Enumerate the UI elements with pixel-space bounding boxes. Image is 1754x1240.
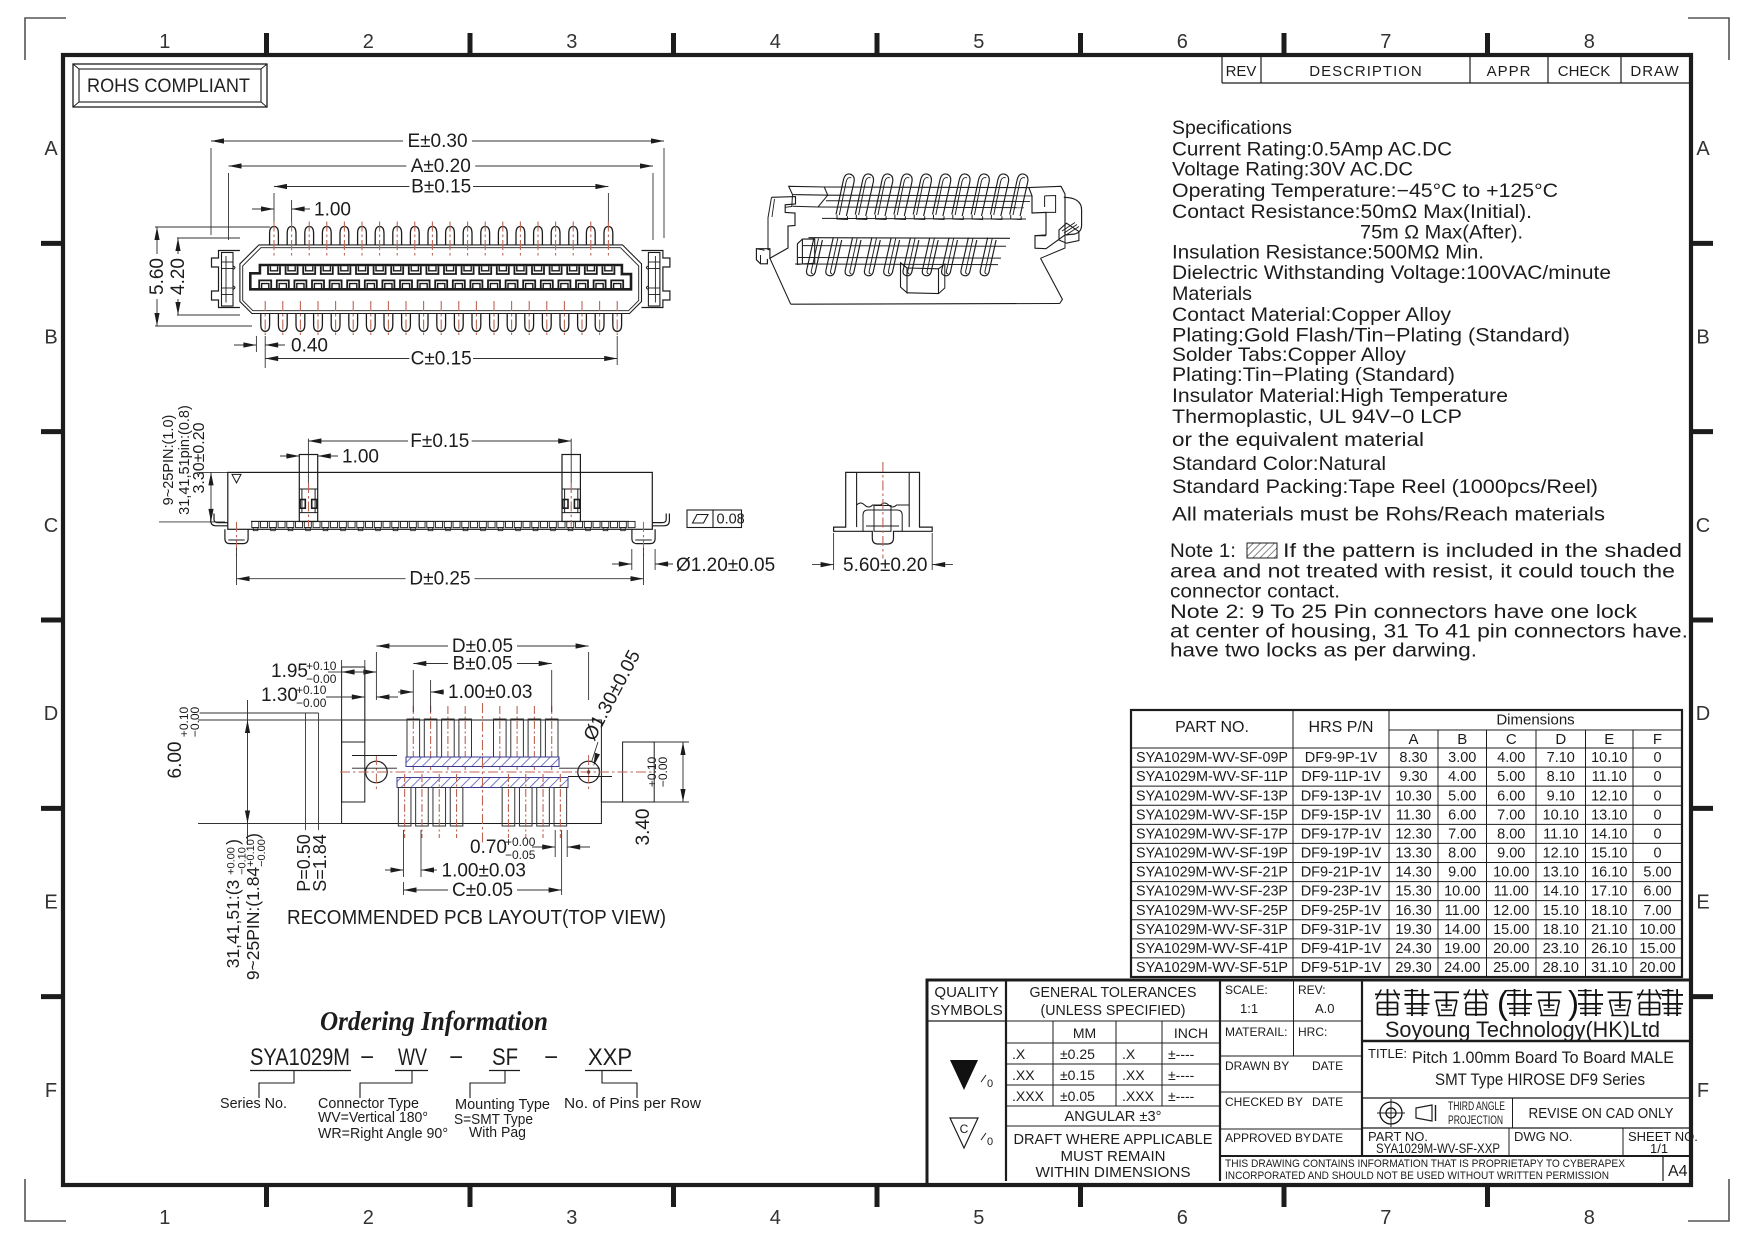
right end fitting [642,251,670,308]
hole left [366,761,388,783]
section inner contact [857,503,910,507]
svg-text:SF: SF [492,1044,518,1071]
svg-text:A±0.20: A±0.20 [411,156,471,177]
svg-text:75m Ω Max(After).: 75m Ω Max(After). [1360,222,1523,244]
svg-text:DF9-23P-1V: DF9-23P-1V [1301,884,1382,900]
svg-text:0.70: 0.70 [470,837,507,858]
svg-text:APPR: APPR [1487,63,1532,80]
svg-text:Dielectric Withstanding Volt: Dielectric Withstanding Voltage:100VAC/m… [1172,262,1611,284]
svg-text:DF9-13P-1V: DF9-13P-1V [1301,788,1382,804]
svg-text:4.20: 4.20 [168,258,189,295]
svg-text:Pitch 1.00mm Board To Boar: Pitch 1.00mm Board To Board MALE [1412,1049,1674,1067]
svg-text:PROJECTION: PROJECTION [1448,1115,1503,1127]
svg-text:31,41,51:(3: 31,41,51:(3 [223,880,243,969]
pcb vertical centerline [482,703,484,845]
svg-text:GENERAL TOLERANCES: GENERAL TOLERANCES [1030,984,1197,1001]
svg-text:APPROVED BY: APPROVED BY [1225,1131,1311,1145]
svg-text:23.10: 23.10 [1543,941,1579,957]
svg-text:Voltage Rating:30V AC.DC: Voltage Rating:30V AC.DC [1172,159,1413,181]
svg-text:10.00: 10.00 [1493,865,1529,881]
svg-text:±----: ±---- [1168,1046,1195,1062]
svg-text:1/1: 1/1 [1650,1141,1668,1156]
svg-text:WITHIN DIMENSIONS: WITHIN DIMENSIONS [1036,1164,1191,1181]
svg-text:13.10: 13.10 [1543,865,1579,881]
company name cell [1362,1040,1691,1043]
svg-text:Ø1.20±0.05: Ø1.20±0.05 [676,555,775,576]
ROHS COMPLIANT label box [73,64,267,107]
svg-text:DATE: DATE [1312,1131,1343,1145]
svg-text:DF9-15P-1V: DF9-15P-1V [1301,807,1382,823]
svg-text:5: 5 [973,1207,984,1229]
svg-text:have two locks as per dar: have two locks as per darwing. [1170,640,1477,662]
svg-text:4: 4 [770,31,781,53]
iso front shelf [809,237,1011,240]
svg-text:SYA1029M-WV-SF-51P: SYA1029M-WV-SF-51P [1136,960,1288,976]
svg-text:1.00±0.03: 1.00±0.03 [442,861,526,882]
general tolerances cell [1219,980,1221,1181]
lock tower right [562,455,580,522]
svg-text:B: B [44,327,57,349]
svg-text:E: E [1696,892,1709,914]
iso rear rail [824,186,1029,189]
dim 5.60 vertical [155,226,270,228]
iso body bottom and faces [791,303,1060,306]
svg-text:4.00: 4.00 [1497,750,1525,766]
svg-text:): ) [1568,984,1579,1021]
svg-text:10.00: 10.00 [1444,884,1480,900]
svg-text:A.0: A.0 [1315,1001,1335,1016]
title cell [1362,1097,1691,1099]
svg-text:10.30: 10.30 [1395,788,1431,804]
svg-text:A: A [1408,731,1418,748]
svg-text:C: C [44,515,58,537]
svg-text:+0.10: +0.10 [306,659,337,673]
svg-text:11.10: 11.10 [1543,826,1578,842]
svg-text:Series No.: Series No. [220,1095,287,1112]
dim 3.40 vertical [654,742,689,802]
revision table strip [1221,57,1223,83]
dim C±0.15 [616,336,618,365]
svg-text:10.10: 10.10 [1543,807,1579,823]
svg-text:4: 4 [770,1207,781,1229]
svg-text:29.30: 29.30 [1395,960,1431,976]
svg-text:SYMBOLS: SYMBOLS [930,1002,1003,1019]
flatness symbol 0.08 [687,510,742,528]
svg-text:15.00: 15.00 [1639,941,1675,957]
svg-text:S=1.84: S=1.84 [310,834,330,892]
svg-text:F±0.15: F±0.15 [410,431,469,452]
svg-text:13.30: 13.30 [1395,846,1431,862]
contact row top [268,266,280,274]
lock tower left [299,455,317,522]
svg-text:Soyoung Technology(HK)Ltd: Soyoung Technology(HK)Ltd [1385,1017,1660,1042]
svg-text:F: F [1653,731,1662,748]
lower hatched bar [397,778,568,788]
svg-text:Plating:Tin−Plating (Standard: Plating:Tin−Plating (Standard) [1172,364,1455,386]
svg-text:DRAWN BY: DRAWN BY [1225,1059,1289,1073]
svg-text:Contact Material:Copper Allo: Contact Material:Copper Alloy [1172,304,1451,326]
dim 1.00 top [291,200,293,228]
svg-text:3.40: 3.40 [633,809,654,846]
svg-text:14.10: 14.10 [1591,826,1627,842]
svg-text:Operating Temperature:−45°C: Operating Temperature:−45°C to +125°C [1172,180,1558,202]
upper hatched bar [406,757,559,767]
svg-text:C: C [1696,515,1710,537]
svg-text:.XXX: .XXX [1012,1088,1045,1104]
svg-text:Materials: Materials [1172,283,1252,305]
svg-text:INCORPORATED AND SHOULD NOT: INCORPORATED AND SHOULD NOT BE USED WITH… [1225,1170,1609,1182]
svg-text:.XX: .XX [1122,1067,1145,1083]
svg-text:1.00: 1.00 [314,200,351,221]
svg-text:): ) [223,839,243,845]
dim 5.60±0.20 [833,533,835,570]
dim F±0.15 [307,439,309,483]
svg-text:HRC:: HRC: [1298,1025,1327,1039]
svg-text:connector contact.: connector contact. [1170,581,1340,603]
svg-text:1:1: 1:1 [1240,1001,1258,1016]
svg-text:7.10: 7.10 [1547,750,1575,766]
svg-text:SYA1029M: SYA1029M [250,1044,350,1071]
scale/rev/material column [1361,980,1363,1156]
quality symbols cell [1005,980,1007,1181]
svg-text:DF9-25P-1V: DF9-25P-1V [1301,903,1382,919]
contact row bottom [259,280,271,288]
bottom pin row [261,314,270,332]
svg-text:Current Rating:0.5Amp AC.DC: Current Rating:0.5Amp AC.DC [1172,139,1452,161]
svg-text:REV:: REV: [1298,983,1326,997]
svg-text:6: 6 [1177,1207,1188,1229]
svg-text:XXP: XXP [588,1044,632,1071]
svg-text:B: B [1696,327,1709,349]
pcb horizontal centerline [340,771,656,773]
svg-text:−0.00: −0.00 [656,756,670,787]
svg-text:11.00: 11.00 [1494,884,1529,900]
svg-text:20.00: 20.00 [1639,960,1675,976]
side body outline [228,472,653,529]
svg-text:±----: ±---- [1168,1067,1195,1083]
svg-text:Thermoplastic, UL 94V−0 LCP: Thermoplastic, UL 94V−0 LCP [1172,406,1462,428]
svg-text:11.30: 11.30 [1396,807,1431,823]
svg-text:MUST REMAIN: MUST REMAIN [1061,1148,1166,1165]
svg-text:SYA1029M-WV-SF-31P: SYA1029M-WV-SF-31P [1136,922,1288,938]
svg-text:7: 7 [1380,31,1391,53]
sheet frame corner marks [25,18,66,60]
contact block outline [250,265,631,289]
svg-text:21.10: 21.10 [1591,922,1627,938]
upper pad row [407,719,420,757]
svg-text:Insulator Material:High Temp: Insulator Material:High Temperature [1172,385,1508,407]
svg-text:0: 0 [987,1136,993,1148]
svg-text:SCALE:: SCALE: [1225,983,1268,997]
svg-text:Specifications: Specifications [1172,117,1292,139]
left fitting outline [342,667,365,802]
svg-text:−0.00: −0.00 [256,839,268,867]
svg-text:area and not treated with: area and not treated with resist, it cou… [1170,561,1675,583]
svg-text:PART NO.: PART NO. [1175,719,1249,736]
svg-text:0: 0 [1653,826,1661,842]
svg-text:E±0.30: E±0.30 [407,131,467,152]
svg-text:19.30: 19.30 [1395,922,1431,938]
svg-text:12.00: 12.00 [1493,903,1529,919]
svg-text:8: 8 [1584,1207,1595,1229]
svg-text:19.00: 19.00 [1444,941,1480,957]
svg-text:16.30: 16.30 [1395,903,1431,919]
svg-text:−0.00: −0.00 [188,706,202,737]
iso center peg [901,263,908,293]
svg-text:6.00: 6.00 [1497,788,1525,804]
svg-text:DATE: DATE [1312,1059,1343,1073]
company chinese name (drawn strokes) [1387,989,1389,1016]
svg-text:.XXX: .XXX [1122,1088,1155,1104]
svg-text:3.00: 3.00 [1448,750,1476,766]
svg-text:7.00: 7.00 [1497,807,1525,823]
svg-text:SYA1029M-WV-SF-23P: SYA1029M-WV-SF-23P [1136,884,1288,900]
dim C±0.05 [403,882,405,895]
svg-text:9.00: 9.00 [1497,846,1525,862]
svg-text:C: C [1506,731,1517,748]
svg-text:REV: REV [1226,63,1257,80]
hole right [578,761,600,783]
svg-text:0: 0 [1653,807,1661,823]
dim B±0.15 [273,193,275,228]
svg-text:5: 5 [973,31,984,53]
svg-text:C±0.05: C±0.05 [452,880,513,901]
solder tab strip [251,520,629,522]
svg-text:): ) [243,833,263,839]
svg-text:1.95: 1.95 [271,661,308,682]
pcb body outline [342,720,602,824]
svg-text:15.10: 15.10 [1543,903,1579,919]
svg-text:WV=Vertical 180°: WV=Vertical 180° [318,1109,428,1126]
svg-text:Solder Tabs:Copper Alloy: Solder Tabs:Copper Alloy [1172,344,1406,366]
svg-text:9.10: 9.10 [1547,788,1575,804]
svg-text:SYA1029M-WV-SF-25P: SYA1029M-WV-SF-25P [1136,903,1288,919]
svg-text:3.30±0.20: 3.30±0.20 [191,422,208,493]
svg-text:5.00: 5.00 [1643,865,1671,881]
svg-text:D±0.25: D±0.25 [409,569,470,590]
svg-text:0: 0 [1653,769,1661,785]
svg-text:2: 2 [363,31,374,53]
svg-text:10.00: 10.00 [1639,922,1675,938]
svg-text:Dimensions: Dimensions [1496,712,1574,729]
svg-text:12.10: 12.10 [1543,846,1579,862]
svg-text:1.30: 1.30 [261,685,298,706]
svg-text:8.00: 8.00 [1448,846,1476,862]
proprietary note row [1220,1155,1691,1157]
svg-text:24.00: 24.00 [1444,960,1480,976]
svg-text:8.10: 8.10 [1547,769,1575,785]
svg-text:5.60±0.20: 5.60±0.20 [843,555,927,576]
svg-text:TITLE:: TITLE: [1368,1046,1407,1061]
svg-text:0.40: 0.40 [291,336,328,357]
svg-text:SYA1029M-WV-SF-15P: SYA1029M-WV-SF-15P [1136,807,1288,823]
svg-text:SYA1029M-WV-SF-21P: SYA1029M-WV-SF-21P [1136,865,1288,881]
svg-text:DESCRIPTION: DESCRIPTION [1309,63,1423,80]
top pin row [270,227,279,245]
svg-text:(: ( [1497,984,1508,1021]
svg-text:Ordering Information: Ordering Information [320,1006,548,1036]
svg-text:5.60: 5.60 [147,258,168,295]
ordering leader lines [259,1071,294,1099]
svg-text:A: A [1696,138,1710,160]
svg-text:C: C [960,1122,969,1136]
svg-text:Note 1:: Note 1: [1170,540,1236,562]
svg-text:HRS P/N: HRS P/N [1309,719,1374,736]
svg-text:Insulation Resistance:500MΩ M: Insulation Resistance:500MΩ Min. [1172,242,1484,264]
svg-text:SYA1029M-WV-SF-11P: SYA1029M-WV-SF-11P [1136,769,1288,785]
svg-text:A: A [44,138,58,160]
dim 1.00 side [280,455,299,457]
right peg [632,529,655,543]
svg-text:DRAFT WHERE APPLICABLE: DRAFT WHERE APPLICABLE [1014,1131,1213,1148]
svg-text:DF9-9P-1V: DF9-9P-1V [1305,750,1378,766]
svg-text:13.10: 13.10 [1591,807,1627,823]
svg-text:18.10: 18.10 [1543,922,1579,938]
svg-text:SYA1029M-WV-SF-13P: SYA1029M-WV-SF-13P [1136,788,1288,804]
dim Ø1.20±0.05 [631,549,633,570]
iso front pin row [806,238,822,276]
svg-text:12.30: 12.30 [1395,826,1431,842]
svg-text:18.10: 18.10 [1591,903,1627,919]
svg-text:WR=Right Angle 90°: WR=Right Angle 90° [318,1125,448,1142]
dim A±0.20 [228,173,230,240]
svg-text:20.00: 20.00 [1493,941,1529,957]
svg-text:10.10: 10.10 [1591,750,1627,766]
ruler ticks and numbers [264,33,269,57]
dim 1.00±0.03 upper [430,680,432,712]
svg-text:±0.05: ±0.05 [1060,1088,1095,1104]
svg-text:8: 8 [1584,31,1595,53]
svg-text:SYA1029M-WV-SF-19P: SYA1029M-WV-SF-19P [1136,846,1288,862]
svg-text:D: D [44,703,58,725]
svg-text:DATE: DATE [1312,1095,1343,1109]
svg-text:0.08: 0.08 [717,512,745,528]
svg-text:±----: ±---- [1168,1088,1195,1104]
svg-text:WV: WV [398,1044,427,1071]
svg-text:C±0.15: C±0.15 [411,349,472,370]
isometric view: rear rail left plate [789,186,828,195]
svg-text:0: 0 [1653,788,1661,804]
svg-text:±0.25: ±0.25 [1060,1046,1095,1062]
svg-text:14.30: 14.30 [1395,865,1431,881]
svg-text:DF9-21P-1V: DF9-21P-1V [1301,865,1382,881]
svg-text:ANGULAR ±3°: ANGULAR ±3° [1065,1108,1162,1125]
svg-text:−: − [449,1044,463,1071]
svg-text:ROHS COMPLIANT: ROHS COMPLIANT [87,75,250,97]
svg-text:E: E [1604,731,1614,748]
dimensions table [1131,710,1682,977]
svg-text:0: 0 [1653,750,1661,766]
dim B±0.05 pcb [412,670,414,712]
svg-text:+0.10: +0.10 [296,683,327,697]
svg-text:THIS DRAWING CONTAINS INFOR: THIS DRAWING CONTAINS INFORMATION THAT I… [1225,1158,1626,1170]
svg-text:14.10: 14.10 [1543,884,1579,900]
svg-text:MATERAIL:: MATERAIL: [1225,1025,1287,1039]
svg-text:DF9-17P-1V: DF9-17P-1V [1301,826,1382,842]
svg-text:9.00: 9.00 [1448,865,1476,881]
svg-text:11.10: 11.10 [1592,769,1627,785]
title block outline [927,980,1691,1185]
left end fitting [212,251,240,308]
svg-text:9~25PIN:(1.0): 9~25PIN:(1.0) [161,415,177,506]
svg-text:±0.15: ±0.15 [1060,1067,1095,1083]
svg-text:MM: MM [1073,1025,1096,1041]
svg-text:B: B [1457,731,1467,748]
svg-text:A4: A4 [1668,1163,1688,1180]
svg-text:26.10: 26.10 [1591,941,1627,957]
svg-text:2: 2 [363,1207,374,1229]
svg-text:D: D [1555,731,1566,748]
dim 1.00±0.03 lower [403,830,405,877]
iso front left block [797,239,814,265]
svg-text:−0.00: −0.00 [296,696,327,710]
svg-text:11.00: 11.00 [1445,903,1480,919]
svg-text:−: − [544,1044,558,1071]
quality triangle symbol [950,1060,978,1090]
quality C triangle symbol [950,1118,978,1148]
svg-text:8.00: 8.00 [1497,826,1525,842]
svg-text:1.00: 1.00 [342,447,379,468]
svg-text:.X: .X [1122,1046,1136,1062]
third angle projection symbol [1380,1102,1402,1124]
svg-text:D: D [1696,703,1710,725]
svg-text:6.00: 6.00 [1643,884,1671,900]
svg-text:With Pag: With Pag [469,1124,526,1141]
lower pad row [398,788,411,827]
svg-text:3: 3 [566,31,577,53]
svg-text:DF9-11P-1V: DF9-11P-1V [1301,769,1381,785]
svg-text:or the equivalent material: or the equivalent material [1172,429,1424,451]
svg-text:DF9-31P-1V: DF9-31P-1V [1301,922,1382,938]
svg-text:All materials must be Rohs: All materials must be Rohs/Reach materia… [1172,504,1605,526]
part no / dwg no / sheet row [1362,1127,1691,1129]
svg-text:7.00: 7.00 [1448,826,1476,842]
svg-text:5.00: 5.00 [1448,788,1476,804]
svg-text:DF9-19P-1V: DF9-19P-1V [1301,846,1382,862]
dim D±0.05 pcb [375,652,377,700]
svg-text:28.10: 28.10 [1543,960,1579,976]
dim 4.20 vertical [177,237,240,239]
svg-text:15.30: 15.30 [1395,884,1431,900]
iso top pin row [836,174,854,216]
third angle / revise row [1512,1098,1514,1128]
svg-text:3: 3 [566,1207,577,1229]
svg-text:SYA1029M-WV-SF-XXP: SYA1029M-WV-SF-XXP [1376,1141,1500,1156]
P/S extension lines [200,712,319,714]
svg-text:Standard Color:Natural: Standard Color:Natural [1172,453,1386,475]
svg-text:17.10: 17.10 [1591,884,1627,900]
svg-text:F: F [45,1080,57,1102]
svg-text:B±0.05: B±0.05 [452,654,512,675]
iso left end bracket [756,197,795,264]
svg-text:If the pattern is included: If the pattern is included in the shaded [1283,540,1682,562]
right fitting outline [601,776,622,802]
svg-text:.XX: .XX [1012,1067,1035,1083]
svg-text:RECOMMENDED PCB LAYOUT(TOP: RECOMMENDED PCB LAYOUT(TOP VIEW) [287,906,666,929]
svg-text:−: − [360,1044,374,1071]
iso right end bracket [1029,186,1065,248]
svg-text:6.00: 6.00 [165,742,186,779]
svg-text:B±0.15: B±0.15 [411,177,471,198]
svg-text:SMT Type HIROSE DF9 Series: SMT Type HIROSE DF9 Series [1435,1071,1645,1089]
svg-text:SYA1029M-WV-SF-41P: SYA1029M-WV-SF-41P [1136,941,1288,957]
svg-text:9.30: 9.30 [1399,769,1427,785]
svg-text:7.00: 7.00 [1643,903,1671,919]
svg-text:12.10: 12.10 [1591,788,1627,804]
svg-text:1.00±0.03: 1.00±0.03 [448,682,532,703]
svg-text:0: 0 [1653,846,1661,862]
left peg [225,529,248,543]
